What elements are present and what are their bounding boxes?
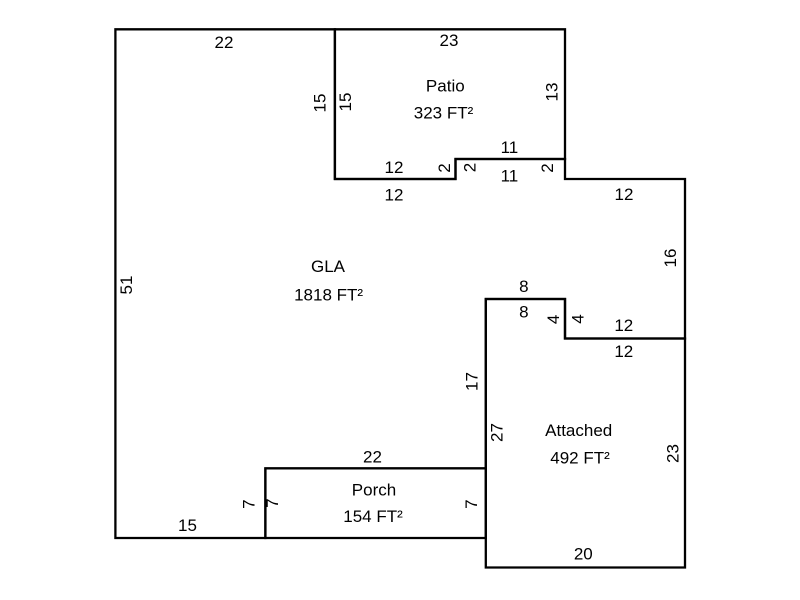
svg-text:7: 7 [462, 499, 481, 508]
svg-text:323 FT²: 323 FT² [414, 104, 474, 123]
svg-text:23: 23 [440, 31, 459, 50]
svg-text:20: 20 [574, 545, 593, 564]
svg-text:Patio: Patio [426, 76, 465, 95]
svg-text:7: 7 [240, 499, 259, 508]
Porch outline [265, 468, 485, 538]
svg-text:15: 15 [178, 516, 197, 535]
svg-text:13: 13 [543, 83, 562, 102]
svg-text:2: 2 [435, 163, 454, 172]
svg-text:12: 12 [614, 342, 633, 361]
svg-text:7: 7 [263, 498, 282, 507]
svg-text:Attached: Attached [545, 421, 612, 440]
svg-text:154 FT²: 154 FT² [343, 507, 403, 526]
svg-text:12: 12 [385, 158, 404, 177]
svg-text:GLA: GLA [311, 257, 346, 276]
svg-text:27: 27 [488, 423, 507, 442]
svg-text:12: 12 [615, 185, 634, 204]
svg-text:11: 11 [501, 167, 519, 186]
svg-text:23: 23 [664, 444, 683, 463]
svg-text:2: 2 [538, 163, 557, 172]
svg-text:16: 16 [661, 249, 680, 268]
svg-text:12: 12 [614, 316, 633, 335]
svg-text:2: 2 [461, 163, 480, 172]
Patio outline [335, 29, 565, 179]
svg-text:11: 11 [501, 138, 519, 157]
svg-text:22: 22 [363, 448, 382, 467]
svg-text:15: 15 [336, 93, 355, 112]
svg-text:1818 FT²: 1818 FT² [294, 286, 363, 305]
GLA outline [115, 29, 685, 538]
svg-text:15: 15 [311, 94, 330, 113]
svg-text:4: 4 [569, 314, 588, 323]
svg-text:17: 17 [463, 372, 482, 391]
svg-text:8: 8 [519, 277, 528, 296]
svg-text:12: 12 [385, 186, 404, 205]
svg-text:22: 22 [215, 33, 234, 52]
svg-text:8: 8 [519, 303, 528, 322]
svg-text:4: 4 [544, 315, 563, 324]
svg-text:492 FT²: 492 FT² [550, 449, 610, 468]
svg-text:51: 51 [117, 276, 136, 295]
svg-text:Porch: Porch [352, 481, 396, 500]
Attached garage outline [486, 299, 685, 568]
